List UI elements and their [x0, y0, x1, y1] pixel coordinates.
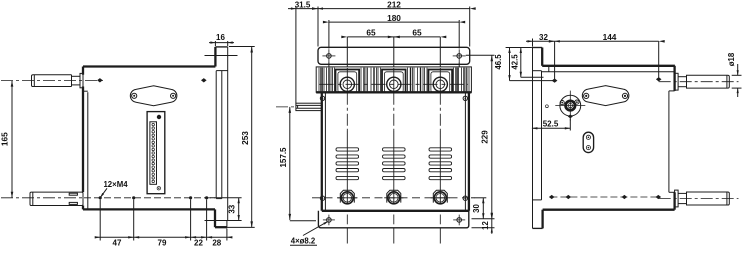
ext 31.5 left [295, 7, 297, 104]
left view: rear bracket inner lines [215, 71, 217, 199]
dim lines 65 / 65 [347, 36, 440, 38]
upper terminal stud (left view) [32, 75, 72, 87]
svg-text:ø18: ø18 [727, 52, 736, 66]
right view: inner top rail line [542, 71, 675, 73]
shaft hub ring [566, 101, 575, 110]
dim 52.5 (right view) [569, 119, 571, 131]
left view: rear panel edge [227, 47, 229, 221]
ext 180 left [328, 20, 330, 49]
center mark [97, 78, 103, 82]
top mounting plate [318, 47, 470, 64]
svg-text:47: 47 [113, 239, 122, 248]
svg-text:157.5: 157.5 [279, 147, 288, 168]
pole center lines vertical [346, 37, 348, 67]
left view: body bottom edge [83, 208, 215, 210]
diamond cover plate (right view) [582, 86, 629, 106]
right view: top edge [542, 65, 675, 67]
svg-text:12×M4: 12×M4 [103, 180, 128, 189]
diamond cover plate (left view) [130, 86, 177, 106]
left view: rear top step [214, 47, 216, 67]
svg-text:229: 229 [481, 130, 490, 144]
shaft index diamond [568, 114, 573, 118]
right view: bottom edge [543, 209, 675, 211]
svg-text:32: 32 [539, 33, 548, 42]
stud shoulder [71, 75, 73, 87]
svg-text:30: 30 [472, 204, 481, 213]
band horizontal center line [320, 83, 469, 85]
svg-text:144: 144 [603, 32, 617, 42]
dim 16 (left view top) [214, 41, 216, 46]
left view: rear foot [214, 209, 216, 227]
dim 33 (left view) [210, 197, 242, 199]
left view: mounting plate edge-on line [205, 55, 238, 57]
oval slot (right view) [583, 132, 593, 152]
body bottom thick line [322, 210, 469, 212]
right view: left bracket lines [541, 71, 543, 200]
svg-text:65: 65 [366, 28, 376, 38]
svg-text:65: 65 [412, 28, 422, 38]
dim 165 (left view left) [11, 81, 13, 198]
upper stud center line [1, 80, 103, 82]
plate hole right [171, 93, 176, 98]
svg-text:212: 212 [387, 0, 401, 9]
plate hole left [132, 93, 137, 98]
svg-text:12: 12 [481, 221, 490, 230]
side stub terminal (front view left) [296, 103, 322, 110]
dim 229 (front view right) [466, 54, 495, 56]
svg-text:33: 33 [227, 204, 236, 213]
svg-text:46.5: 46.5 [494, 54, 503, 70]
dim 253 (left view right) [229, 46, 255, 48]
right view: outer left edge [532, 48, 534, 229]
svg-text:180: 180 [387, 13, 401, 23]
dim ø18 (right view far right) [732, 74, 742, 76]
svg-text:28: 28 [212, 239, 221, 248]
ext 180 right [458, 20, 460, 49]
bottom flange (front view) [318, 211, 468, 228]
strip contact holes [152, 123, 155, 126]
operating shaft (right view) [560, 95, 581, 116]
plate hole left [584, 93, 589, 98]
right view: right edge [668, 91, 670, 192]
shaft flange screw left [560, 101, 564, 105]
terminal band [316, 67, 471, 92]
ext 212 left [317, 7, 319, 47]
svg-text:165: 165 [0, 132, 9, 146]
plate hole right [622, 93, 627, 98]
corner screws [320, 96, 324, 100]
lower stud center line [659, 198, 739, 200]
dim 12 (front view right) [472, 227, 495, 229]
svg-text:52.5: 52.5 [543, 120, 559, 129]
dim 46.5 / 42.5 (right view left) [506, 47, 532, 49]
left view: foot top surface line [205, 220, 240, 222]
dim 30 (front view right) [471, 197, 486, 199]
lower terminals (front view) [340, 190, 354, 202]
svg-text:4×ø8.2: 4×ø8.2 [291, 237, 316, 246]
band rib stripes [318, 68, 320, 92]
ventilation louvers [336, 148, 359, 151]
plate hole left [327, 54, 332, 59]
svg-text:22: 22 [194, 239, 203, 248]
stub center line [276, 106, 296, 108]
dim line 212 [318, 8, 470, 10]
right view: foot bottom [533, 227, 543, 229]
right view: top-left step [541, 48, 543, 66]
strip screw top [157, 115, 161, 119]
flange hole [457, 218, 462, 223]
svg-text:31.5: 31.5 [295, 0, 311, 9]
plate hole right [457, 54, 462, 59]
strip inner frame [150, 122, 157, 185]
band bottom thick edge [316, 91, 471, 93]
svg-text:253: 253 [240, 131, 250, 145]
dashed line with hole marks (right view) [550, 196, 658, 198]
upper stud (right view) [675, 73, 679, 90]
upper stud center line [659, 81, 739, 83]
body edges (front view) [321, 93, 323, 211]
lower terminal stud (left view) [30, 192, 83, 205]
upper terminal pad at x=393.8 [382, 70, 406, 93]
auxiliary terminal strip (left view) [147, 112, 165, 194]
shaft flange screw right [575, 100, 579, 104]
small pin [546, 105, 549, 108]
dim 32 / 144 (right view top) [532, 39, 534, 47]
dashed line through lower terminals [312, 197, 475, 199]
bottom chain dimensions 47/79/22/28 [99, 200, 101, 241]
lower stud center line (left part) [1, 197, 84, 199]
dim 157.5 (front view left) [289, 107, 291, 220]
left view: front panel inner edge [87, 92, 89, 209]
svg-text:42.5: 42.5 [510, 54, 519, 70]
strip screw bottom [157, 187, 160, 190]
flange hole [327, 218, 332, 223]
right view: top ledge [532, 47, 542, 49]
lower stud (right view) [675, 190, 679, 207]
ext 212 right [469, 7, 471, 47]
left view: body left edge upper [82, 67, 84, 75]
upper stud flange [80, 73, 83, 87]
upper terminal pad at x=347.3 [336, 70, 360, 93]
upper terminal pad at x=440.3 [429, 70, 453, 93]
M4 hole marks [99, 196, 102, 199]
center mark rear [201, 78, 207, 82]
left view: body top edge [83, 65, 215, 67]
svg-text:16: 16 [216, 33, 225, 42]
dim line 180 [329, 21, 459, 23]
dashed mounting-hole line across body [84, 197, 215, 199]
dim line 31.5 [288, 8, 318, 10]
svg-text:79: 79 [158, 239, 167, 248]
